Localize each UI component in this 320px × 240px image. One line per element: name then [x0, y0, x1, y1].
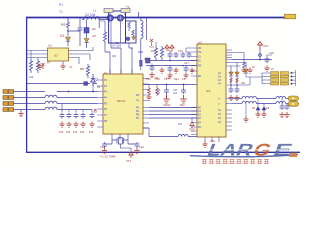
diode block D1 [84, 28, 89, 34]
wire row 2 [14, 97, 45, 99]
U3 left pin labels [198, 48, 202, 129]
cap below wire3 [183, 66, 188, 79]
grounds below TVS [255, 111, 260, 117]
svg-text:U3: U3 [198, 41, 202, 45]
cluster wire y85 [227, 77, 250, 85]
bus wire 4 [149, 117, 197, 119]
svg-text:MCU1: MCU1 [117, 99, 126, 103]
ferrite bead FB3 [45, 107, 57, 109]
svg-text:U2: U2 [54, 54, 58, 58]
res R13 [160, 46, 163, 60]
svg-text:R20: R20 [146, 77, 151, 81]
tan diode DR1 [229, 72, 233, 87]
cap C11 [59, 104, 65, 135]
svg-text:U1: U1 [104, 71, 108, 75]
LED D3 [91, 74, 98, 86]
svg-text:PC: PC [136, 117, 140, 120]
wire [256, 103, 276, 105]
wire row2 cont [57, 97, 97, 99]
pad P1 oval [288, 96, 299, 101]
bridge circle Q1 [107, 15, 113, 21]
svg-text:C3: C3 [69, 65, 73, 69]
svg-text:104: 104 [59, 130, 64, 134]
svg-text:VD: VD [198, 48, 202, 50]
U3 bottom pins [205, 137, 219, 142]
resistor R5 [67, 22, 70, 30]
tan diode DR3 vertical [244, 69, 262, 77]
svg-text:R8: R8 [80, 67, 84, 71]
border frame bottom line [26, 151, 300, 153]
svg-text:C27: C27 [184, 61, 189, 65]
wires from module down to U1 [105, 43, 143, 75]
ground [241, 67, 246, 73]
TVS diodes D5 D6 [256, 99, 266, 114]
svg-text:RX: RX [136, 94, 140, 97]
small red ground lower left [243, 104, 248, 123]
U1 top pins [110, 69, 132, 74]
company name (Chinese, stylised) [202, 159, 269, 163]
svg-text:R2: R2 [92, 27, 96, 31]
svg-text:D2: D2 [60, 34, 64, 38]
border frame left line [26, 17, 28, 153]
resistor R15 below wires [29, 51, 32, 74]
fuse F2 above border [121, 9, 130, 13]
cap C24 [168, 52, 173, 61]
vcc arrow top right [258, 42, 263, 50]
wire below U2 right pin [62, 61, 64, 64]
svg-text:C31: C31 [100, 145, 105, 149]
inductor L3 [242, 96, 256, 98]
wire row 4 [14, 110, 45, 112]
grounds below cluster [159, 67, 164, 73]
svg-text:T1: T1 [59, 10, 63, 14]
blue box component [146, 58, 151, 63]
svg-text:104: 104 [80, 130, 85, 134]
junction dot [68, 91, 70, 93]
cap CL [102, 142, 107, 154]
resistor inside right box [128, 22, 131, 31]
svg-text:R31: R31 [241, 82, 246, 85]
junction dots on wires [169, 60, 184, 67]
U1 right pins [143, 79, 149, 129]
blue labels mid [156, 89, 178, 95]
svg-text:104: 104 [178, 123, 183, 126]
svg-text:C25: C25 [178, 49, 183, 53]
svg-text:Y1 32.768K: Y1 32.768K [100, 155, 116, 159]
svg-text:C26: C26 [166, 77, 171, 80]
svg-text:R12: R12 [151, 49, 156, 53]
long bus wire y83 [27, 84, 97, 87]
capacitor C7 [78, 18, 83, 47]
U1 left pin labels [104, 79, 108, 123]
cap C14 [80, 110, 86, 135]
ground [189, 67, 194, 73]
vertical coil L2 [141, 21, 143, 39]
svg-text:C5: C5 [92, 34, 96, 38]
diode D4 tan [84, 39, 89, 49]
svg-text:R22: R22 [180, 104, 185, 107]
inductor L6 [276, 101, 286, 103]
tan diode DR2 [235, 72, 239, 87]
junction dots mid [166, 84, 185, 86]
big ground mid2 [180, 95, 187, 103]
wire drop right of module [146, 18, 148, 41]
wire h58 [150, 60, 197, 62]
svg-text:C25: C25 [154, 77, 159, 80]
module box right half [126, 21, 137, 43]
svg-text:L-: L- [218, 104, 220, 106]
wire row3 cont [57, 103, 97, 105]
wire row4 cont to caps [57, 109, 92, 111]
vcc arrow mid2 [170, 45, 174, 51]
cap mid C17 [181, 85, 186, 95]
U1 right pin labels [136, 94, 140, 120]
wires from U2 right pins [75, 47, 94, 64]
coil on lower wire [178, 135, 188, 137]
bus wire 2 [149, 110, 197, 112]
red ground small [146, 94, 151, 100]
cap C15 [89, 110, 95, 135]
wire h64 [146, 65, 197, 67]
caps right pair [279, 99, 284, 118]
junction [259, 59, 261, 61]
ground below U2 right [60, 63, 65, 69]
svg-text:C32: C32 [139, 145, 144, 149]
svg-text:VCC: VCC [263, 44, 269, 48]
ground below U3 [202, 141, 207, 147]
res R12 [154, 42, 157, 60]
U2 left pins [42, 51, 48, 58]
red marks TVS [252, 107, 270, 110]
bridge circle Q2 [117, 15, 123, 21]
bus wire 3 [149, 114, 197, 116]
crystal bottom wire [120, 144, 131, 151]
cap C27 [187, 52, 192, 58]
svg-text:104: 104 [66, 130, 71, 134]
U1 bottom pins [112, 134, 128, 140]
border frame top line [26, 17, 290, 19]
wire [256, 98, 276, 100]
svg-text:R9: R9 [61, 23, 65, 27]
U3 right pin labels [218, 72, 222, 124]
connector J1 pads [3, 90, 14, 112]
ferrite bead FB1 [45, 95, 57, 97]
header J2 block [271, 72, 289, 85]
diode D2 (tan) [66, 37, 71, 46]
wires down from U1 bottom [105, 140, 136, 144]
cap [284, 104, 289, 118]
node circle [259, 54, 262, 57]
svg-text:VS: VS [198, 52, 202, 54]
svg-text:C8: C8 [182, 77, 186, 81]
pad P2 oval [288, 102, 299, 107]
wire down from U3 pin 52.5 [232, 53, 244, 63]
crystal Y1 [112, 138, 128, 145]
inductor L5 [242, 101, 256, 103]
pullup drop [190, 118, 194, 128]
res R14 [243, 62, 246, 69]
header feed wires [262, 73, 271, 84]
U3 right pins [226, 50, 232, 130]
wire vertical from top border [67, 18, 69, 23]
bus wire 1 [149, 107, 197, 109]
cap below wire2 [167, 66, 172, 79]
red text row below cluster [154, 77, 171, 80]
resistor column R3 [103, 30, 106, 44]
transformer module box T1 [109, 11, 126, 43]
svg-text:D3: D3 [97, 85, 101, 89]
U3 left pins [191, 48, 197, 135]
wire right edge of module [139, 12, 141, 46]
svg-text:U2: U2 [48, 44, 52, 48]
wire from U3 pin98 [232, 98, 242, 100]
U2 right pins [69, 51, 75, 58]
ground at connector [18, 111, 23, 117]
cap C25 [174, 52, 179, 58]
wire AC input [82, 19, 84, 21]
red cross marks upper [149, 39, 154, 47]
svg-text:104: 104 [156, 92, 161, 95]
red marks below [189, 129, 195, 131]
wire with node [87, 30, 89, 32]
wire [87, 20, 108, 29]
wire to pad2 [286, 103, 288, 105]
cap CR [134, 142, 139, 154]
svg-text:TX: TX [136, 100, 139, 103]
inductor L4 [276, 96, 286, 98]
caps below wire [149, 64, 154, 78]
svg-text:104: 104 [89, 130, 94, 134]
red resistor RZ1 [148, 85, 151, 97]
vcc arrow mid [165, 45, 169, 51]
svg-text:R21: R21 [174, 77, 179, 81]
fuse drop wires [110, 13, 125, 16]
optocoupler U2 [48, 48, 69, 61]
header pin dots [291, 72, 293, 85]
svg-text:R7: R7 [47, 61, 51, 65]
red tilt mark [168, 50, 172, 52]
wire row1 cont [57, 91, 97, 93]
node junction [67, 30, 69, 32]
ground [173, 67, 178, 73]
resistor inside right box 2 [132, 30, 135, 39]
svg-text:L1: L1 [93, 9, 97, 13]
big ground mid1 [163, 95, 170, 103]
wire to pad [286, 98, 288, 100]
cap C10 at x142 [139, 60, 142, 70]
resistor R16 below wires [36, 58, 39, 74]
svg-text:Q3: Q3 [112, 54, 116, 58]
svg-text:C8: C8 [115, 41, 119, 45]
wire LED to row1 [92, 86, 94, 92]
svg-text:T1: T1 [126, 5, 130, 9]
pin dot leads [292, 70, 296, 86]
wire from U3 pin103 [232, 103, 242, 105]
U1 left pins [97, 80, 103, 127]
sheet entry tag top right [285, 14, 296, 19]
sheet background [0, 0, 300, 169]
wire row 1 [14, 91, 45, 93]
resistor R8 right of U2 [86, 64, 89, 78]
ground2 [247, 67, 252, 73]
logo swoosh [190, 154, 298, 158]
wires above resistor [100, 21, 105, 30]
svg-text:104: 104 [73, 130, 78, 134]
svg-text:IC3: IC3 [206, 89, 211, 93]
cap C26 [181, 52, 186, 58]
red mark left of U1 [93, 109, 97, 112]
mid wire y84.5 [143, 84, 197, 86]
junction dots cluster [230, 84, 238, 86]
svg-text:XT1: XT1 [126, 159, 132, 163]
driver caps [228, 87, 233, 101]
cap mid C16 [164, 85, 169, 99]
svg-text:24C02: 24C02 [163, 104, 171, 107]
svg-text:R1: R1 [59, 3, 63, 7]
ground [261, 111, 266, 117]
inductor L1 [84, 17, 99, 20]
red resistor RZ2 [156, 85, 159, 97]
cap C28 [264, 55, 272, 71]
blue box on bus wire [84, 81, 88, 85]
svg-text:EN: EN [198, 76, 202, 78]
cap C12 [66, 110, 72, 135]
ground below U2 left [37, 63, 42, 69]
red labels cluster [151, 49, 189, 65]
red diode mark [42, 63, 45, 69]
red labels above bus [163, 104, 185, 107]
wires into U3 upper pins [186, 48, 191, 52]
wire [86, 33, 88, 38]
thermistor circle [126, 37, 130, 41]
red vcc below [129, 152, 133, 158]
winding wires inside box [111, 22, 120, 43]
svg-text:104: 104 [173, 92, 178, 95]
red zigzag right2 [236, 78, 238, 83]
wires U3 to driver cluster [231, 63, 246, 73]
svg-text:RS: RS [198, 66, 202, 68]
svg-text:C28: C28 [269, 51, 274, 55]
ferrite bead FB2 [45, 101, 57, 103]
wire [68, 31, 80, 36]
wire row 3 [14, 103, 45, 105]
wires from left border to U2 [27, 51, 42, 58]
cap C13 [73, 110, 79, 135]
fuse F1 above border [104, 9, 113, 13]
logo text LARGE [205, 140, 296, 159]
svg-text:102: 102 [29, 75, 34, 79]
tan diode in right box [132, 37, 136, 40]
red marks right [241, 66, 256, 85]
logo TM mark [289, 153, 297, 157]
wire from U3 to vcc node [232, 50, 272, 60]
lower wire [143, 128, 197, 137]
driver cap2 [234, 87, 239, 101]
red zigzag right1 [230, 78, 232, 83]
red labels row [146, 77, 186, 81]
